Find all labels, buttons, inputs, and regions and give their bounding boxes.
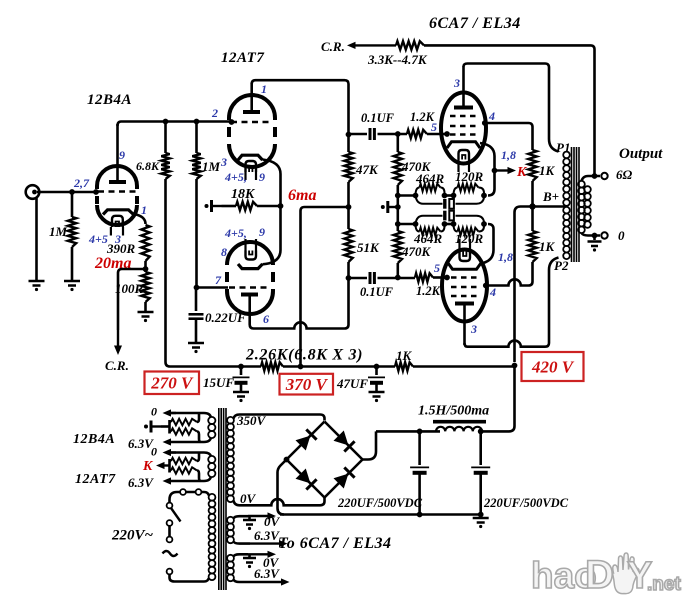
tube V3 plate — [454, 66, 473, 108]
svg-text:1.5H/500ma: 1.5H/500ma — [418, 404, 489, 419]
pin label 6 — [263, 312, 269, 326]
resistor 1M grid — [192, 122, 200, 288]
svg-text:1,8: 1,8 — [501, 148, 516, 162]
label 6CA7 / EL34 title — [429, 15, 521, 32]
ground 6.3Va — [243, 516, 256, 530]
wire 350V lead — [234, 415, 325, 421]
label 0V b — [263, 555, 280, 570]
svg-text:4: 4 — [488, 109, 495, 123]
svg-text:0V: 0V — [240, 491, 257, 506]
capacitor 0.22UF — [189, 288, 204, 343]
tube V2a heater pins — [246, 172, 257, 180]
tube V4 heater pins — [460, 239, 471, 252]
capacitor bypass upper — [416, 196, 485, 209]
svg-text:1M: 1M — [202, 159, 221, 174]
resistor 1K screen upper — [528, 150, 536, 206]
wire heater1 bottom lead — [163, 438, 212, 446]
input jack J1 — [26, 185, 40, 199]
wire bridge arm TL — [287, 422, 325, 460]
label B+ — [542, 189, 559, 204]
terminal 0 — [601, 232, 607, 238]
label 350V — [236, 413, 267, 428]
label K upper — [516, 165, 528, 180]
tube V1 heater — [112, 216, 123, 227]
wire 6.3Va top — [234, 512, 277, 519]
node bus upper left — [395, 193, 401, 199]
wire bridge minus to ground rail — [278, 460, 287, 515]
wire V4 cathode up — [481, 224, 494, 264]
tube V2a grid — [231, 121, 273, 124]
arrow to K — [495, 167, 517, 174]
capacitor 220UF no1 — [410, 431, 429, 515]
label 6ma — [288, 187, 316, 204]
diode D4 — [334, 467, 355, 488]
label 2.26K(6.8K X 3) — [245, 347, 363, 364]
transformer T1 heater winding 1 — [208, 417, 215, 438]
voltage box 420V — [522, 352, 584, 381]
node upper coupling — [346, 132, 352, 138]
wire bridge arm BL — [287, 460, 325, 498]
ground 0.22UF — [188, 343, 204, 353]
pin label 4+5, 9 V2b — [224, 225, 265, 240]
svg-text:6.8K: 6.8K — [136, 159, 160, 173]
resistor 1.2K lower — [415, 273, 446, 281]
tube V1 heater pins — [111, 227, 123, 236]
ac-ground 18K — [205, 200, 222, 212]
label 20ma — [94, 255, 131, 272]
pin label 1 V2a — [261, 82, 267, 96]
inductor choke 1.5H/500ma — [433, 422, 486, 432]
label Output — [619, 146, 663, 162]
label To 6CA7 / EL34 — [278, 535, 392, 552]
wire K node down to 120R — [488, 171, 495, 196]
transformer T1 core — [219, 408, 226, 590]
capacitor 0.1UF upper — [349, 128, 408, 140]
svg-text:51K: 51K — [357, 240, 380, 255]
wire C.R. branch — [118, 269, 146, 330]
label 12B4A — [87, 92, 132, 108]
label 0V a — [264, 514, 281, 529]
pin label 3 V3 — [453, 76, 460, 90]
capacitor bypass lower — [416, 211, 485, 224]
node bus mid — [395, 196, 401, 225]
svg-text:C.R.: C.R. — [321, 39, 345, 54]
tube V4 plate — [455, 304, 474, 346]
tube V2b cathode — [238, 264, 263, 269]
svg-text:D: D — [585, 553, 614, 597]
tube V4 cathode — [448, 263, 481, 269]
capacitor 0.1UF lower — [349, 272, 416, 284]
svg-text:220UF/500VDC: 220UF/500VDC — [483, 496, 569, 510]
node grid entry lower EL34 — [444, 275, 450, 281]
tube V3 cathode — [447, 142, 480, 148]
tube V4 heater — [460, 252, 471, 262]
transformer T1 6.3V winding A — [227, 517, 234, 543]
wire V2b grid network — [194, 285, 228, 291]
wire primary bottom lead — [170, 575, 209, 582]
svg-text:3.3K--4.7K: 3.3K--4.7K — [367, 52, 428, 67]
tube V3 EL34 upper envelope — [441, 93, 486, 164]
svg-text:5: 5 — [434, 261, 440, 275]
svg-text:1: 1 — [141, 203, 147, 217]
wire humpot center bar 1 — [161, 420, 170, 434]
label 220V~ — [111, 528, 154, 544]
node cathode net upper right — [481, 193, 487, 199]
wire B+ down branch — [515, 207, 533, 363]
resistor 1K rail — [395, 362, 413, 370]
svg-text:120R: 120R — [455, 169, 484, 184]
pin label 9 — [119, 148, 125, 162]
pin label 3 V1 — [114, 232, 121, 246]
resistor humpot R2a — [170, 453, 200, 465]
transformer T2 secondary winding — [578, 181, 591, 233]
label 3.3K--4.7K — [367, 52, 428, 67]
label 6.3V b — [254, 566, 280, 581]
ground secondary — [588, 236, 602, 252]
pin label 5 lower — [434, 261, 440, 275]
label 0 h1 — [151, 405, 157, 419]
wire pin4 to 1K upper — [485, 123, 533, 150]
resistor 390R — [141, 225, 149, 269]
label K humpot — [142, 459, 154, 474]
resistor 3.3K-4.7K — [396, 41, 595, 175]
tube V2b heater — [246, 251, 257, 260]
label 51K — [357, 240, 380, 255]
node 464R upper left — [413, 193, 419, 199]
capacitor 15UF — [233, 367, 250, 392]
label 1.2K lower — [416, 284, 442, 298]
capacitor 47UF — [368, 367, 385, 392]
label 1.5H/500ma — [418, 404, 489, 419]
wire ground rail — [280, 513, 481, 516]
wire supply rail — [170, 365, 515, 368]
label 1M input — [49, 224, 68, 239]
svg-text:9: 9 — [259, 225, 265, 239]
terminal AC bottom — [167, 569, 173, 575]
wire jack to grid — [37, 189, 99, 195]
node cap2 ground — [478, 512, 484, 518]
pin label 5 upper — [431, 120, 437, 134]
node 47UF — [374, 364, 380, 370]
resistor 464R upper — [416, 184, 445, 196]
label 1K lower — [539, 239, 556, 254]
svg-text:To 6CA7 / EL34: To 6CA7 / EL34 — [278, 535, 392, 552]
resistor 470K lower — [394, 224, 402, 278]
label 6ohm — [616, 167, 633, 182]
svg-text:1K: 1K — [539, 239, 556, 254]
svg-text:18K: 18K — [231, 187, 256, 202]
resistor 18K — [222, 202, 281, 210]
ground 1M — [64, 281, 80, 291]
tube V2b plate — [241, 295, 258, 316]
resistor 1K screen lower — [528, 207, 536, 262]
svg-text:7: 7 — [215, 273, 222, 287]
resistor humpot R1b — [170, 428, 202, 442]
svg-text:5: 5 — [431, 120, 437, 134]
svg-text:470K: 470K — [401, 159, 432, 174]
wire 6.3Vb bottom — [234, 578, 290, 585]
svg-text:3: 3 — [470, 322, 477, 336]
pin label 2 — [211, 106, 218, 120]
node 390R/100R junction — [143, 266, 149, 272]
wire bridge plus to DC line — [363, 431, 377, 459]
ac-ground network — [381, 201, 398, 213]
node 464R/120R upper — [442, 193, 457, 199]
node cap1 top — [417, 429, 423, 435]
label P2 — [554, 258, 569, 273]
node 0.1UF/470K lower — [395, 275, 401, 281]
wire heater2 bottom lead — [163, 477, 212, 485]
label 47K — [355, 162, 379, 177]
wire V3 plate to P1 — [464, 64, 559, 152]
tube V2b 12AT7 lower envelope — [227, 242, 273, 314]
wire V1 cathode to 390R — [134, 214, 146, 224]
pin label 4+5, 9 V2a — [224, 170, 265, 184]
node cap1 ground — [417, 512, 423, 518]
label 120R lower — [455, 231, 484, 246]
node screen pin4 upper — [482, 120, 488, 126]
pin label 7 — [215, 273, 222, 287]
tube V2a cathode — [238, 155, 263, 160]
svg-text:6Ω: 6Ω — [616, 167, 633, 182]
tube V1 cathode — [103, 210, 134, 215]
tube V4 EL34 lower envelope — [442, 250, 487, 322]
tube V2a heater — [246, 161, 257, 172]
label 100R — [115, 281, 144, 296]
label 12AT7 heater — [75, 472, 116, 487]
wire jack ground stem — [35, 197, 38, 280]
svg-text:2,7: 2,7 — [73, 176, 90, 190]
svg-text:0.1UF: 0.1UF — [361, 111, 395, 125]
wire V2b plate run — [250, 278, 349, 329]
svg-text:270 V: 270 V — [150, 374, 194, 393]
svg-text:390R: 390R — [106, 241, 136, 256]
wire 420V riser — [481, 366, 515, 432]
label 464R upper — [415, 171, 445, 186]
node cathode/18K junction — [278, 203, 284, 209]
resistor 51K — [344, 207, 352, 278]
node 0.1UF/470K upper — [395, 131, 401, 137]
transformer T1 HV winding — [227, 417, 234, 502]
transformer T1 heater winding 2 — [208, 456, 215, 477]
label C.R. left — [105, 358, 129, 373]
resistor 470K upper — [394, 134, 402, 196]
svg-text:0.22UF: 0.22UF — [205, 310, 246, 325]
watermark haoDIY.net — [531, 553, 681, 597]
node 464R lower left — [413, 221, 419, 227]
label C.R. top — [321, 39, 345, 54]
resistor 120R upper — [454, 184, 485, 196]
ground 100R — [138, 312, 154, 322]
svg-text:47K: 47K — [355, 162, 379, 177]
pin label 3 V2a — [220, 155, 227, 169]
svg-text:1M: 1M — [49, 224, 68, 239]
tube V2b grid — [229, 286, 271, 289]
node cathode net lower right — [481, 221, 487, 227]
svg-text:K: K — [142, 459, 154, 474]
svg-text:B+: B+ — [542, 189, 559, 204]
node K upper — [492, 168, 498, 174]
tube V4 grids — [451, 278, 478, 297]
label 0V HV — [240, 491, 257, 506]
voltage box 370V — [280, 374, 334, 395]
label 1K rail — [396, 348, 413, 363]
node grid entry upper EL34 — [444, 131, 450, 137]
wire bus upper — [398, 194, 416, 197]
node 420V rail junction — [512, 363, 518, 369]
svg-text:370 V: 370 V — [285, 375, 329, 394]
wire primary top lead — [170, 492, 209, 503]
label 15UF — [203, 375, 234, 390]
label 18K — [231, 187, 256, 202]
node 15UF — [238, 364, 244, 370]
label P1 — [556, 140, 570, 155]
svg-text:0: 0 — [151, 405, 157, 419]
wire DC line — [376, 430, 440, 433]
svg-text:C.R.: C.R. — [105, 358, 129, 373]
svg-text:0V: 0V — [264, 514, 281, 529]
svg-text:4+5,: 4+5, — [224, 226, 247, 240]
svg-text:4+5: 4+5 — [88, 232, 108, 246]
svg-text:6.3V: 6.3V — [128, 475, 154, 490]
transformer T1 primary winding — [209, 494, 216, 580]
resistor 1M input — [68, 192, 76, 280]
svg-text:1K: 1K — [539, 163, 556, 178]
svg-text:P2: P2 — [554, 258, 569, 273]
svg-text:12AT7: 12AT7 — [75, 472, 116, 487]
pin label 1 — [141, 203, 147, 217]
svg-text:2: 2 — [211, 106, 218, 120]
capacitor 220UF no2 — [471, 431, 490, 515]
transformer T2 primary winding — [563, 152, 570, 260]
pin label 8 — [221, 245, 227, 259]
label 1.2K upper — [410, 110, 436, 124]
svg-text:470K: 470K — [401, 244, 432, 259]
svg-text:0: 0 — [618, 228, 625, 243]
svg-text:0: 0 — [151, 445, 157, 459]
pin label 4+5 — [88, 232, 108, 246]
svg-text:9: 9 — [259, 170, 265, 184]
svg-text:12AT7: 12AT7 — [221, 50, 264, 66]
svg-text:3: 3 — [220, 155, 227, 169]
svg-text:Output: Output — [619, 146, 663, 162]
wire humpot center bar 2 — [156, 459, 170, 473]
tube V1 12B4A envelope — [97, 166, 137, 225]
svg-text:2.26K(6.8K X 3): 2.26K(6.8K X 3) — [245, 347, 363, 364]
resistor 120R lower — [454, 224, 485, 235]
svg-text:4: 4 — [489, 285, 496, 299]
tube V3 heater pins — [459, 160, 470, 173]
svg-text:120R: 120R — [455, 231, 484, 246]
transformer T1 6.3V winding B — [227, 555, 234, 581]
label 220UF no2 — [483, 496, 569, 510]
label 390R — [106, 241, 136, 256]
wire heater1 top lead — [163, 409, 212, 417]
svg-text:1.2K: 1.2K — [416, 284, 442, 298]
svg-text:6: 6 — [263, 312, 269, 326]
tube V2a 12AT7 upper envelope — [229, 95, 275, 167]
wire secondary to 0 — [582, 233, 601, 236]
pin label 1,8 V3 — [501, 148, 516, 162]
wire pin4 lower to 1K lower — [486, 262, 533, 286]
voltage box 270V — [145, 372, 200, 395]
svg-text:6.3V: 6.3V — [254, 528, 280, 543]
node 370V — [298, 364, 304, 370]
wire 0V lead — [234, 498, 325, 506]
wire P2 to V4 plate — [465, 258, 559, 347]
node 0 terminal gnd — [592, 233, 598, 239]
arrow C.R. down — [114, 330, 122, 355]
resistor 464R lower — [416, 224, 445, 235]
svg-text:.net: .net — [647, 574, 681, 595]
wire heater2 top lead — [163, 449, 212, 457]
ground main rail — [473, 518, 489, 528]
transformer T2 core — [572, 147, 580, 262]
svg-text:6ma: 6ma — [288, 187, 316, 204]
svg-text:220V~: 220V~ — [111, 528, 154, 544]
wire 6.3Va bottom — [234, 540, 288, 547]
wire V2a plate run — [252, 80, 349, 134]
label 12B4A heater — [73, 432, 115, 447]
wire B+ to primary tap — [533, 205, 566, 208]
ground 47UF — [369, 392, 385, 402]
label 6.3V a — [254, 528, 280, 543]
node mid plate-load — [346, 204, 352, 210]
wire bridge arm BR — [325, 460, 363, 498]
resistor humpot R1a — [170, 413, 200, 425]
label 0.22UF — [205, 310, 246, 325]
tube V2b heater pins — [246, 239, 257, 251]
svg-text:K: K — [516, 165, 528, 180]
svg-text:8: 8 — [221, 245, 227, 259]
node 464R/120R lower — [442, 221, 457, 227]
arrow feedback C.R. — [347, 42, 396, 49]
label 0.1UF upper — [361, 111, 395, 125]
label 0 h2 — [151, 445, 157, 459]
tube V1 grid — [98, 190, 136, 193]
resistor humpot R2b — [170, 467, 202, 481]
svg-text:0.1UF: 0.1UF — [360, 285, 394, 299]
wire V2 cathodes — [263, 160, 281, 265]
resistor 1.2K upper — [407, 130, 446, 138]
diode D3 — [296, 469, 317, 490]
node screen pin4 lower — [483, 283, 489, 289]
label 1M grid — [202, 159, 221, 174]
resistor 6.8K — [161, 122, 170, 367]
svg-text:3: 3 — [453, 76, 460, 90]
diode D2 — [334, 431, 355, 452]
node bridge minus — [284, 457, 290, 463]
switch S1 — [167, 503, 181, 537]
svg-text:1,8: 1,8 — [498, 250, 513, 264]
wire bridge arm TR — [325, 422, 363, 460]
label 1K upper — [539, 163, 556, 178]
resistor 2.26K — [261, 362, 283, 370]
ac source squiggle — [163, 551, 178, 556]
tube V2a plate — [243, 83, 260, 112]
wire secondary to 6ohm — [582, 176, 601, 181]
svg-text:1: 1 — [261, 82, 267, 96]
node lower coupling — [346, 275, 352, 281]
terminal 6ohm — [601, 173, 607, 179]
svg-text:12B4A: 12B4A — [73, 432, 115, 447]
pin label 4 V3 — [488, 109, 495, 123]
svg-text:9: 9 — [119, 148, 125, 162]
label 6.3V h2 — [128, 475, 154, 490]
wire 6.3Vb top — [234, 551, 277, 558]
node bus lower left — [395, 221, 401, 227]
label 220UF no1 — [337, 496, 423, 510]
